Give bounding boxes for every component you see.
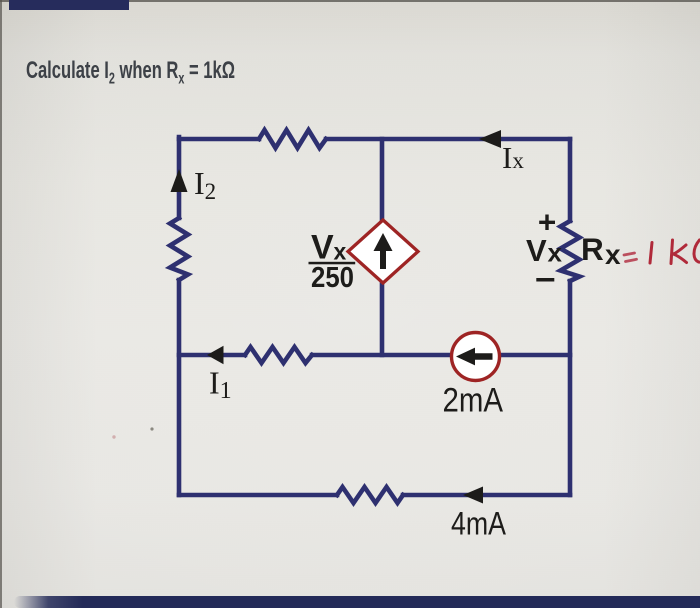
svg-text:2mA: 2mA xyxy=(443,382,504,420)
svg-text:x: x xyxy=(334,239,347,265)
svg-text:R: R xyxy=(581,231,604,267)
svg-text:Calculate I2 when Rx = 1kΩ: Calculate I2 when Rx = 1kΩ xyxy=(26,57,235,88)
svg-text:I2: I2 xyxy=(194,165,216,204)
svg-text:V: V xyxy=(526,233,547,268)
svg-text:V: V xyxy=(311,229,334,267)
svg-text:Ix: Ix xyxy=(502,140,524,175)
svg-text:x: x xyxy=(605,239,621,270)
svg-text:250: 250 xyxy=(311,262,354,294)
svg-text:x: x xyxy=(548,238,563,268)
svg-text:I1: I1 xyxy=(209,365,232,405)
svg-text:4mA: 4mA xyxy=(451,506,507,542)
